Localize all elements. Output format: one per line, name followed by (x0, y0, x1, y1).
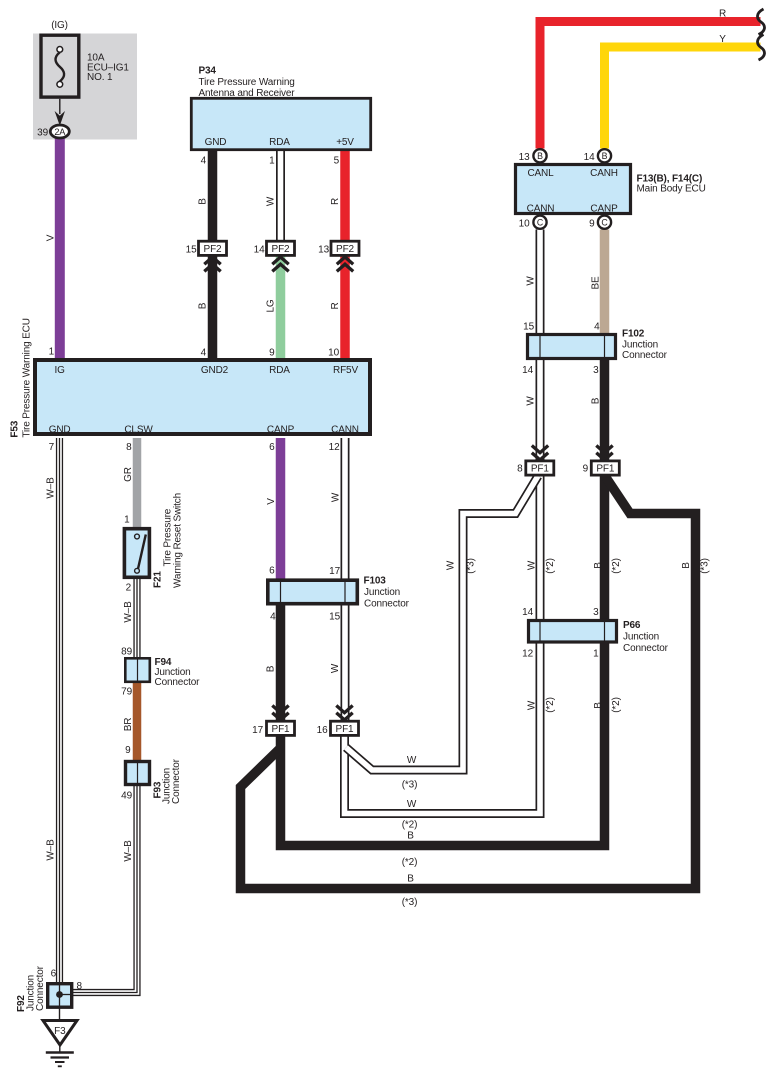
svg-text:CANH: CANH (590, 168, 618, 179)
svg-text:5: 5 (334, 156, 340, 167)
svg-text:B: B (198, 198, 209, 205)
svg-text:49: 49 (121, 791, 132, 802)
svg-text:7: 7 (49, 442, 55, 453)
F21 Tire Pressure Warning Reset Switch box (124, 529, 149, 578)
wire R CAN bus to Main Body ECU pin 13 (540, 22, 761, 149)
svg-text:Junction: Junction (623, 632, 659, 643)
svg-text:15: 15 (186, 245, 197, 256)
arrow into PF1 8 (532, 446, 548, 460)
svg-text:LG: LG (266, 299, 277, 312)
svg-text:RDA: RDA (269, 365, 290, 376)
svg-text:79: 79 (121, 687, 132, 698)
svg-text:B: B (591, 397, 602, 404)
svg-text:Y: Y (719, 34, 726, 45)
svg-text:13: 13 (318, 245, 329, 256)
F92 Junction Connector box (48, 984, 72, 1008)
wire R from P34 pin 5 (+5V) via PF2 13 to F53 pin 10 (RF5V) (340, 149, 350, 361)
svg-text:+5V: +5V (336, 137, 354, 148)
svg-text:12: 12 (522, 649, 533, 660)
svg-text:14: 14 (584, 152, 595, 163)
svg-text:(*3): (*3) (402, 897, 418, 908)
svg-text:(IG): (IG) (51, 20, 68, 31)
svg-text:6: 6 (269, 442, 275, 453)
fuse 10A ECU-IG1 NO.1 (41, 35, 79, 97)
svg-text:9: 9 (125, 745, 131, 756)
wire B from F103 pin 4 to PF1 17 (276, 602, 286, 726)
P34 Tire Pressure Warning Antenna and Receiver box (191, 98, 370, 149)
svg-text:8: 8 (517, 464, 523, 475)
svg-text:Warning Reset Switch: Warning Reset Switch (173, 493, 184, 588)
connector PF1 pin 17 (267, 721, 295, 735)
wire BR from F94 pin 79 to F93 pin 9 (133, 683, 142, 764)
svg-text:(*2): (*2) (545, 558, 556, 574)
svg-text:F102: F102 (622, 329, 645, 340)
svg-text:CLSW: CLSW (124, 425, 153, 436)
connector PF1 pin 16 (331, 721, 359, 735)
svg-text:Junction: Junction (622, 340, 658, 351)
svg-text:F3: F3 (54, 1026, 66, 1037)
connector PF2 pin 13 (331, 241, 359, 255)
svg-text:B: B (593, 702, 604, 709)
svg-text:PF1: PF1 (531, 464, 549, 475)
svg-text:V: V (45, 234, 56, 241)
svg-text:C: C (537, 217, 544, 227)
arrow into PF2 13 (337, 257, 353, 271)
svg-text:B: B (593, 562, 604, 569)
svg-text:17: 17 (252, 725, 263, 736)
svg-text:GND2: GND2 (201, 365, 229, 376)
svg-text:F103: F103 (364, 576, 387, 587)
connector PF2 pin 14 (267, 241, 295, 255)
wire Y CAN bus to Main Body ECU pin 14 (605, 47, 761, 149)
svg-text:B: B (681, 562, 692, 569)
arrow into PF2 15 (204, 257, 220, 271)
svg-text:(*2): (*2) (402, 857, 418, 868)
svg-text:B: B (602, 151, 608, 161)
svg-text:15: 15 (523, 322, 534, 333)
svg-text:39: 39 (37, 128, 48, 139)
pin 9 C connector circle (598, 216, 611, 229)
svg-text:6: 6 (269, 566, 275, 577)
svg-text:9: 9 (589, 219, 595, 230)
svg-text:14: 14 (522, 607, 533, 618)
F103 Junction Connector box (268, 580, 358, 604)
svg-text:W: W (526, 276, 537, 286)
svg-text:13: 13 (519, 152, 530, 163)
svg-text:4: 4 (594, 322, 600, 333)
svg-text:89: 89 (121, 647, 132, 658)
svg-text:Tire Pressure Warning ECU: Tire Pressure Warning ECU (22, 318, 33, 437)
svg-text:W–B: W–B (45, 477, 56, 499)
svg-text:W–B: W–B (123, 601, 134, 623)
svg-text:8: 8 (77, 981, 83, 992)
svg-text:(*3): (*3) (700, 558, 711, 574)
svg-text:(*3): (*3) (466, 558, 477, 574)
svg-text:W: W (407, 799, 417, 810)
ground symbol F3 (43, 1007, 77, 1066)
svg-text:W: W (526, 396, 537, 406)
svg-text:W: W (330, 663, 341, 673)
svg-text:17: 17 (329, 566, 340, 577)
svg-text:B: B (537, 151, 543, 161)
svg-text:W–B: W–B (45, 839, 56, 861)
wire W from F53 pin 12 (CANN) to F103 pin 17 (341, 438, 350, 584)
svg-text:Connector: Connector (171, 758, 182, 804)
F13(B) F14(C) Main Body ECU box (516, 165, 631, 214)
svg-text:Connector: Connector (623, 643, 669, 654)
wire W from F103 pin 15 to PF1 16 (341, 602, 350, 726)
svg-text:W: W (446, 560, 457, 570)
svg-text:BR: BR (123, 718, 134, 732)
wire W from P34 pin 1 (RDA) to PF2 14 (276, 149, 285, 250)
svg-text:R: R (330, 302, 341, 309)
fuse supply area background (33, 34, 137, 140)
switch contacts inside F21 (135, 534, 146, 573)
F53 Tire Pressure Warning ECU box (35, 360, 370, 434)
svg-text:B: B (407, 831, 414, 842)
svg-text:15: 15 (329, 612, 340, 623)
svg-text:9: 9 (583, 464, 589, 475)
svg-text:C: C (601, 217, 608, 227)
svg-text:BE: BE (591, 276, 602, 290)
arrow into PF1 17 (272, 706, 288, 720)
svg-text:B: B (266, 665, 277, 672)
svg-text:PF1: PF1 (272, 724, 290, 735)
svg-text:1: 1 (124, 515, 130, 526)
svg-text:W–B: W–B (123, 840, 134, 862)
svg-text:CANL: CANL (527, 168, 554, 179)
svg-text:4: 4 (270, 612, 276, 623)
svg-text:P66: P66 (623, 620, 641, 631)
svg-text:CANN: CANN (527, 204, 555, 215)
connector PF2 pin 15 (199, 241, 227, 255)
svg-text:Main Body ECU: Main Body ECU (637, 184, 706, 195)
wire LG from PF2 14 to F53 pin 9 (RDA) (276, 250, 286, 361)
svg-text:(*2): (*2) (402, 820, 418, 831)
svg-text:1: 1 (49, 347, 55, 358)
svg-text:W: W (527, 700, 538, 710)
svg-text:(*2): (*2) (545, 697, 556, 713)
svg-text:V: V (266, 498, 277, 505)
svg-text:8: 8 (126, 442, 132, 453)
connector PF1 pin 8 (526, 461, 554, 475)
svg-text:PF1: PF1 (596, 464, 614, 475)
connector PF1 pin 9 (591, 461, 619, 475)
arrow into PF1 9 (596, 446, 612, 460)
svg-text:PF1: PF1 (336, 724, 354, 735)
arrow into PF2 14 (272, 257, 288, 271)
wire W (*2) net: PF1 8 - P66 pin 14/12 - PF1 16 (345, 475, 541, 814)
svg-text:CANP: CANP (590, 204, 618, 215)
pin 13 B connector circle (533, 149, 546, 162)
svg-text:PF2: PF2 (336, 244, 354, 255)
wire W-B from F21 pin 2 to F94 pin 89 (133, 579, 140, 661)
svg-text:1: 1 (593, 649, 599, 660)
wire GR from F53 pin 8 (CLSW) to F21 pin 1 (133, 438, 142, 531)
svg-text:3: 3 (593, 365, 599, 376)
svg-text:B: B (407, 874, 414, 885)
F94 Junction Connector box (125, 658, 150, 682)
svg-text:(*2): (*2) (611, 558, 622, 574)
svg-text:GND: GND (49, 425, 71, 436)
svg-text:12: 12 (329, 442, 340, 453)
F93 Junction Connector box (126, 762, 150, 785)
svg-text:6: 6 (51, 969, 57, 980)
svg-text:(*2): (*2) (611, 697, 622, 713)
break symbol on wire R (758, 9, 765, 35)
svg-text:Connector: Connector (35, 965, 46, 1011)
wire W from F102 pin 14 to PF1 8 (536, 357, 545, 465)
svg-text:PF2: PF2 (272, 244, 290, 255)
svg-text:RDA: RDA (269, 137, 290, 148)
svg-text:14: 14 (522, 365, 533, 376)
pin 14 B connector circle (598, 149, 611, 162)
svg-text:IG: IG (54, 365, 65, 376)
svg-text:4: 4 (201, 348, 207, 359)
svg-text:3: 3 (593, 607, 599, 618)
svg-text:(*3): (*3) (402, 780, 418, 791)
svg-text:B: B (198, 302, 209, 309)
svg-text:1: 1 (269, 156, 275, 167)
svg-text:W: W (266, 196, 277, 206)
svg-text:F21: F21 (153, 571, 164, 588)
svg-text:PF2: PF2 (204, 244, 222, 255)
wire B from F102 pin 3 to PF1 9 (600, 357, 610, 465)
svg-text:14: 14 (254, 245, 265, 256)
svg-text:9: 9 (269, 348, 275, 359)
svg-text:10: 10 (519, 219, 530, 230)
break symbol on wire Y (758, 35, 765, 61)
svg-text:W: W (331, 492, 342, 502)
wire V from F53 pin 6 (CANP) to F103 pin 6 (276, 438, 286, 584)
svg-text:10: 10 (328, 348, 339, 359)
svg-text:2A: 2A (54, 127, 66, 137)
svg-text:Tire Pressure Warning: Tire Pressure Warning (199, 77, 295, 88)
arrow into PF1 16 (336, 706, 352, 720)
svg-text:4: 4 (201, 156, 207, 167)
svg-text:P34: P34 (199, 66, 217, 77)
svg-text:RF5V: RF5V (333, 365, 358, 376)
svg-text:Connector: Connector (622, 350, 668, 361)
wire B (*3) net: PF1 9 branch - right run - PF1 17 branch (241, 478, 696, 889)
svg-text:CANP: CANP (267, 425, 295, 436)
svg-text:NO. 1: NO. 1 (87, 72, 113, 83)
svg-text:W: W (407, 755, 417, 766)
pin 10 C connector circle (533, 216, 546, 229)
P66 Junction Connector box (529, 621, 617, 643)
svg-text:R: R (330, 198, 341, 205)
F102 Junction Connector box (528, 335, 616, 359)
svg-text:Connector: Connector (364, 599, 410, 610)
wire B (*2) net: PF1 9 - P66 pin 3/1 - PF1 17 (281, 475, 605, 846)
svg-text:Antenna and Receiver: Antenna and Receiver (199, 88, 296, 99)
wire B from P34 pin 4 (GND) via PF2 15 to F53 pin 4 (GND2) (208, 149, 218, 361)
svg-text:W: W (527, 560, 538, 570)
junction inside F92 (56, 984, 71, 1007)
wire W (*3) net: PF1 8 branch - left run - PF1 16 branch (346, 476, 538, 770)
node 2A connector oval (50, 125, 69, 138)
svg-text:Connector: Connector (155, 677, 201, 688)
wire fuse output arrow to node 2A (55, 99, 65, 126)
wire BE from Main Body ECU pin 9 to F102 pin 4 (600, 230, 610, 337)
wire W-B from F93 pin 49 to F92 pin 8 (70, 786, 137, 993)
wire V from fuse 2A to F53 pin 1 (IG) (55, 136, 65, 361)
svg-text:2: 2 (126, 583, 132, 594)
svg-text:CANN: CANN (331, 425, 359, 436)
svg-text:GND: GND (205, 137, 227, 148)
svg-text:F53: F53 (10, 420, 21, 437)
svg-text:GR: GR (123, 467, 134, 482)
wire W-B from F53 pin 7 (GND) to F92 pin 6 (56, 438, 63, 986)
svg-text:R: R (719, 9, 726, 20)
svg-text:Junction: Junction (364, 587, 400, 598)
svg-text:16: 16 (317, 725, 328, 736)
wire W from Main Body ECU pin 10 to F102 pin 15 (536, 230, 545, 337)
